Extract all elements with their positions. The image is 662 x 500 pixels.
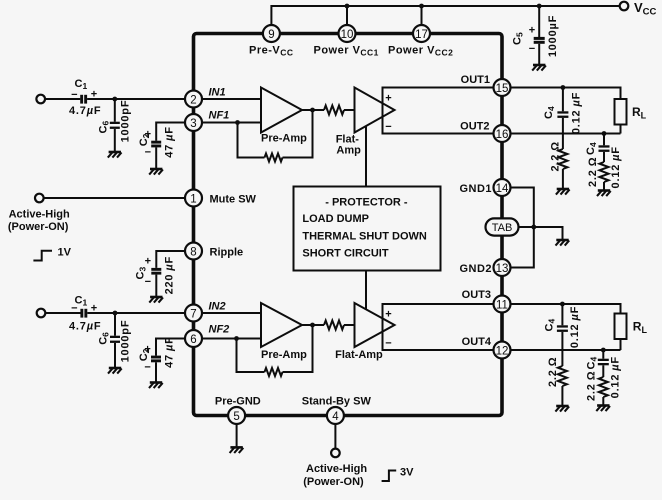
svg-text:47 µF: 47 µF [164,126,176,158]
capacitor C4 0.12uF (zobel A) [543,88,583,150]
wire IN2 [194,312,262,314]
svg-text:IN1: IN1 [209,87,226,99]
ground zobel D [596,406,610,412]
node pin 13 [494,259,511,276]
node pin 14 [494,179,511,196]
svg-text:SHORT CIRCUIT: SHORT CIRCUIT [302,247,388,259]
capacitor C3 220uF [135,256,176,297]
svg-text:(Power-ON): (Power-ON) [8,221,69,233]
svg-text:−: − [529,43,535,55]
svg-text:−: − [385,121,391,133]
svg-text:+: + [529,25,535,37]
svg-text:C4: C4 [544,319,557,332]
svg-text:C5: C5 [512,32,525,45]
node pin 9 [263,25,280,42]
svg-text:−: − [145,276,151,288]
capacitor C1 4.7uF (ch1) [69,78,101,117]
svg-text:GND2: GND2 [459,263,492,275]
svg-text:8: 8 [190,247,196,259]
resistor feedback ch2 [265,368,283,376]
ground C6 (ch1) [108,152,122,158]
wire GND1/GND2 tie [502,188,534,268]
svg-text:2.2 Ω: 2.2 Ω [587,157,599,187]
node VCC terminal [620,2,629,11]
svg-text:Pre-VCC: Pre-VCC [249,45,294,58]
node pin 10 [339,25,356,42]
svg-text:1000pF: 1000pF [119,100,131,143]
svg-text:14: 14 [496,183,509,195]
resistor feedback ch1 [265,154,283,162]
svg-text:Active-High: Active-High [9,209,70,221]
node pin 16 [494,125,511,142]
svg-text:Stand-By SW: Stand-By SW [302,395,372,407]
svg-text:OUT3: OUT3 [462,289,491,301]
node standby terminal [331,449,340,458]
svg-text:Amp: Amp [336,145,361,157]
svg-text:Flat-Amp: Flat-Amp [335,349,383,361]
capacitor C5 1000uF [512,15,560,64]
wire NF2 to C2 (ch2) [156,339,194,356]
resistor preamp1-flatamp1 [324,106,344,115]
node input 2 terminal [37,309,46,318]
wire NF1 [194,122,262,124]
op-amp Flat-Amp 1 output bracket [383,88,503,134]
wire NF2 [194,338,262,340]
node pin 5 [228,407,245,424]
op-amp Flat-Amp 2 output bracket [383,304,503,350]
wire flat-amp1 to protector [365,126,367,187]
svg-text:OUT2: OUT2 [460,121,489,133]
op-amp Flat-Amp 2 [355,303,395,347]
node pin 3 [185,114,202,131]
wire tie to ground [534,227,563,239]
node pin 2 [185,91,202,108]
wire C1 to pin2 [87,98,193,100]
wire pin5 to ground [236,424,238,446]
svg-text:OUT4: OUT4 [462,336,492,348]
svg-text:+: + [385,309,391,321]
svg-text:RL: RL [633,320,648,336]
svg-text:LOAD DUMP: LOAD DUMP [302,213,369,225]
svg-text:- PROTECTOR -: - PROTECTOR - [325,196,408,208]
wire TAB to tie [519,226,534,228]
wire OUT1 [502,88,621,100]
resistor preamp2-flatamp2 [324,321,344,330]
svg-text:−: − [145,147,151,159]
svg-text:GND1: GND1 [459,183,492,195]
svg-text:IN2: IN2 [209,301,226,313]
svg-text:0.12 µF: 0.12 µF [571,92,583,134]
svg-text:C6: C6 [98,332,111,345]
node junction OUT3/zobelC [560,302,565,307]
node junction preamp1 out [310,108,315,113]
wire VCC supply rail [271,6,619,25]
capacitor C2 47uF (ch1) [138,126,176,168]
svg-text:+: + [145,129,151,141]
node pin 11 [494,296,511,313]
wire feedback ch1 left leg [238,123,265,158]
node TAB [486,218,519,235]
wire zobelD to ground [602,397,604,405]
wire OUT2 [502,133,621,135]
wire feedback ch2 left leg [237,339,265,373]
capacitor C4 0.12uF (zobel B) [585,134,622,189]
ground C3 [149,297,163,303]
wire input1 to C1 [45,98,80,100]
wire zobelA to ground [562,169,564,188]
node junction preamp2 out [310,323,315,328]
svg-text:VCC: VCC [634,0,657,18]
svg-text:Ripple: Ripple [210,247,244,259]
node junction gnd tie [531,225,536,230]
node pin 8 [185,243,202,260]
ground zobel C [555,406,569,412]
capacitor C1 4.7uF (ch2) [69,295,101,333]
svg-text:C4: C4 [585,142,598,155]
svg-text:2.2 Ω: 2.2 Ω [550,141,562,171]
ground C2 (ch1) [149,169,163,175]
ground Pre-GND [230,447,244,453]
capacitor C2 47uF (ch2) [138,336,176,381]
node pin 12 [494,342,511,359]
ground TAB [556,240,570,246]
wire input2 to C1 [45,312,80,314]
wire RL to OUT2 [620,125,622,134]
node junction OUT2/zobelB [602,131,607,136]
svg-text:−: − [385,338,391,350]
op-amp Flat-Amp 1 [355,88,395,133]
protector block U-PROT [294,187,441,271]
node 1V step symbol [33,251,52,261]
node junction C6 (ch2) [113,311,118,316]
svg-text:1V: 1V [58,247,72,259]
svg-text:(Power-ON): (Power-ON) [303,476,364,488]
node 3V step symbol [382,471,397,482]
wire C6 drop (ch1) [114,99,116,122]
wire resistor to flat-amp1 [344,109,355,111]
svg-text:7: 7 [190,309,196,321]
svg-text:16: 16 [496,129,509,141]
svg-text:2: 2 [190,95,196,107]
node pin 7 [185,305,202,322]
ground zobel A [556,189,570,195]
op-amp Pre-Amp 2 [261,303,302,347]
resistor 2.2ohm (zobel A) [558,149,567,169]
node pin 17 [413,25,430,42]
wire C5 top [538,6,540,37]
svg-text:+: + [145,256,151,268]
node pin 1 [185,190,202,207]
wire feedback ch1 right leg [283,110,313,158]
resistor RL (ch2) [615,314,648,340]
svg-text:10: 10 [341,29,354,41]
wire stub pin 10 [346,6,348,25]
node pin 4 [327,407,344,424]
svg-text:6: 6 [190,334,196,346]
svg-text:9: 9 [268,29,274,41]
svg-text:−: − [144,362,150,374]
node input 1 terminal [36,95,45,104]
svg-text:47 µF: 47 µF [164,336,176,368]
wire C6 drop (ch2) [114,313,116,336]
svg-text:3V: 3V [400,467,414,479]
svg-text:4.7µF: 4.7µF [69,105,101,117]
node pin 15 [494,79,511,96]
svg-text:Active-High: Active-High [306,463,367,475]
svg-text:Pre-Amp: Pre-Amp [261,349,307,361]
svg-text:4: 4 [332,411,339,423]
node junction NF1 feedback [235,120,240,125]
svg-text:4.7µF: 4.7µF [69,321,101,333]
svg-text:Power VCC1: Power VCC1 [314,45,379,58]
wire mute to pin1 [44,197,194,199]
wire zobelC to ground [561,386,563,405]
wire OUT4 [502,349,621,351]
svg-text:1000pF: 1000pF [119,320,131,363]
svg-text:2.2 Ω: 2.2 Ω [585,371,597,401]
wire protector to flat-amp2 [365,271,367,310]
svg-text:NF1: NF1 [209,110,230,122]
ground C6 (ch2) [108,368,122,374]
resistor 2.2ohm (zobel D) [599,377,608,397]
node junction rail/C5 [537,4,542,9]
wire stub pin 17 [421,6,423,25]
svg-text:+: + [385,93,391,105]
svg-text:5: 5 [233,411,239,423]
svg-text:12: 12 [496,346,509,358]
svg-text:−: − [71,89,77,101]
wire zobelB to ground [603,182,605,190]
wire RL2 to OUT4 [620,339,622,350]
svg-text:11: 11 [496,300,508,312]
svg-text:0.12 µF: 0.12 µF [610,356,622,398]
wire pre-amp2 output [302,324,324,326]
svg-text:NF2: NF2 [209,324,230,336]
capacitor C6 1000pF (ch1) [98,100,132,151]
ground C5 [532,65,546,71]
svg-text:−: − [71,303,77,315]
svg-text:C6: C6 [98,121,111,134]
op-amp Pre-Amp 1 [261,88,302,133]
svg-text:1: 1 [190,194,196,206]
node junction OUT1/zobelA [561,85,566,90]
svg-text:Pre-Amp: Pre-Amp [261,133,307,145]
svg-text:Mute SW: Mute SW [210,194,257,206]
svg-text:+: + [144,344,150,356]
capacitor C4 0.12uF (zobel C) [544,304,582,366]
node pin 6 [185,330,202,347]
capacitor C6 1000pF (ch2) [98,320,132,367]
wire resistor to flat-amp2 [344,324,355,326]
op-amp IC body outline [194,34,503,416]
svg-text:1000µF: 1000µF [547,15,559,57]
svg-text:THERMAL SHUT DOWN: THERMAL SHUT DOWN [302,230,427,242]
wire NF1 to C2 (ch1) [156,123,193,141]
svg-text:17: 17 [415,29,428,41]
node junction rail/pin10 [345,4,350,9]
wire IN1 [194,98,262,100]
svg-text:0.12 µF: 0.12 µF [610,146,622,188]
wire pin4 stub [334,424,336,449]
svg-text:OUT1: OUT1 [461,74,490,86]
svg-text:RL: RL [632,105,647,121]
svg-text:3: 3 [190,118,196,130]
wire feedback ch2 right leg [283,325,313,372]
svg-text:C4: C4 [585,357,598,370]
wire pre-amp1 output [302,109,324,111]
resistor 2.2ohm (zobel B) [600,162,609,182]
wire pin8 to C3 [156,251,193,268]
svg-text:2.2 Ω: 2.2 Ω [547,357,559,387]
node junction OUT4/zobelD [601,348,606,353]
node junction rail/pin17 [419,4,424,9]
ground zobel B [597,191,611,197]
svg-text:220 µF: 220 µF [164,256,176,294]
resistor RL (ch1) [615,99,647,125]
svg-text:TAB: TAB [492,222,513,234]
svg-text:Power VCC2: Power VCC2 [388,45,453,58]
node mute terminal [35,194,44,203]
ground C2 (ch2) [149,383,163,389]
resistor 2.2ohm (zobel C) [558,366,567,386]
capacitor C4 0.12uF (zobel D) [585,350,621,398]
svg-text:15: 15 [496,83,509,95]
node junction NF2 feedback [234,336,239,341]
svg-text:C4: C4 [543,106,556,119]
svg-text:0.12 µF: 0.12 µF [569,306,581,348]
svg-text:13: 13 [496,263,509,275]
wire OUT3 [502,304,621,314]
svg-text:Pre-GND: Pre-GND [215,395,261,407]
wire C1 to pin7 [87,312,193,314]
node junction C6 (ch1) [112,97,117,102]
